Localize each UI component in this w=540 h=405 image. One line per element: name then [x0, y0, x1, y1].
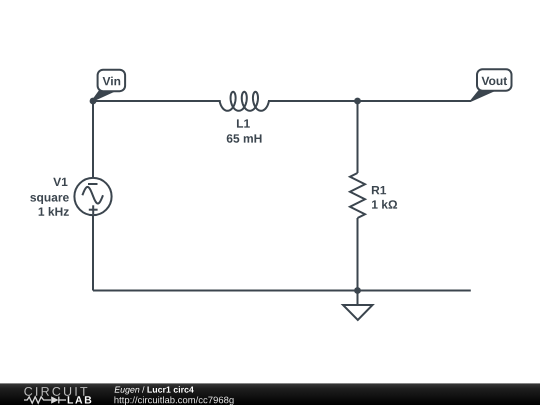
- logo CIRCUIT wordmark: [24, 387, 87, 396]
- label V1 designator: [53, 178, 67, 186]
- voltage source V1 sine symbol: [82, 187, 103, 204]
- logo LAB wordmark: [68, 396, 92, 403]
- wire left upper: Vin node down to V1 + terminal: [92, 101, 94, 179]
- wire resistor top lead from Vout net: [357, 101, 359, 173]
- wire bottom rail: [93, 290, 471, 292]
- voltage source V1 minus polarity mark: [88, 183, 98, 185]
- label L1 value 65 mH: [227, 134, 262, 143]
- logo resistor zigzag: [24, 397, 51, 403]
- junction dot at resistor top (Vout net): [354, 98, 361, 105]
- logo diode cathode bar: [58, 397, 60, 404]
- wire left lower: V1 - terminal to bottom rail: [92, 215, 94, 291]
- net label Vin pointer wedge: [92, 90, 115, 102]
- net label Vout text: [482, 77, 508, 85]
- junction dot at ground node: [354, 287, 361, 294]
- wire top left: Vin node to inductor: [93, 100, 221, 102]
- footer url http://circuitlab.com/cc7968g: [114, 396, 233, 405]
- ground symbol triangle: [343, 305, 373, 320]
- junction dot at node Vin: [90, 98, 97, 105]
- wire top right: inductor to Vout: [268, 100, 471, 102]
- ground stub wire: [357, 291, 359, 306]
- resistor R1 zigzag body: [350, 173, 365, 218]
- wire resistor bottom lead to bottom rail: [357, 218, 359, 291]
- inductor L1 coil: [220, 92, 269, 111]
- footer black bar: [0, 383, 540, 405]
- label R1 value 1 kOhm: [372, 200, 397, 209]
- logo diode lead: [59, 399, 66, 401]
- footer title: Eugen / Lucr1 circ4: [115, 386, 194, 394]
- label V1 value 1 kHz: [39, 207, 69, 216]
- net label Vin text: [103, 77, 121, 86]
- voltage source V1 plus polarity mark: [89, 205, 98, 214]
- label R1 designator: [372, 186, 386, 194]
- label V1 type square: [30, 195, 69, 204]
- voltage source V1 circle body: [74, 178, 111, 215]
- net label Vin box: [98, 70, 126, 92]
- net label Vout pointer wedge: [471, 90, 494, 102]
- label L1 designator: [237, 119, 250, 127]
- logo diode triangle: [51, 396, 58, 403]
- net label Vout box: [477, 69, 512, 91]
